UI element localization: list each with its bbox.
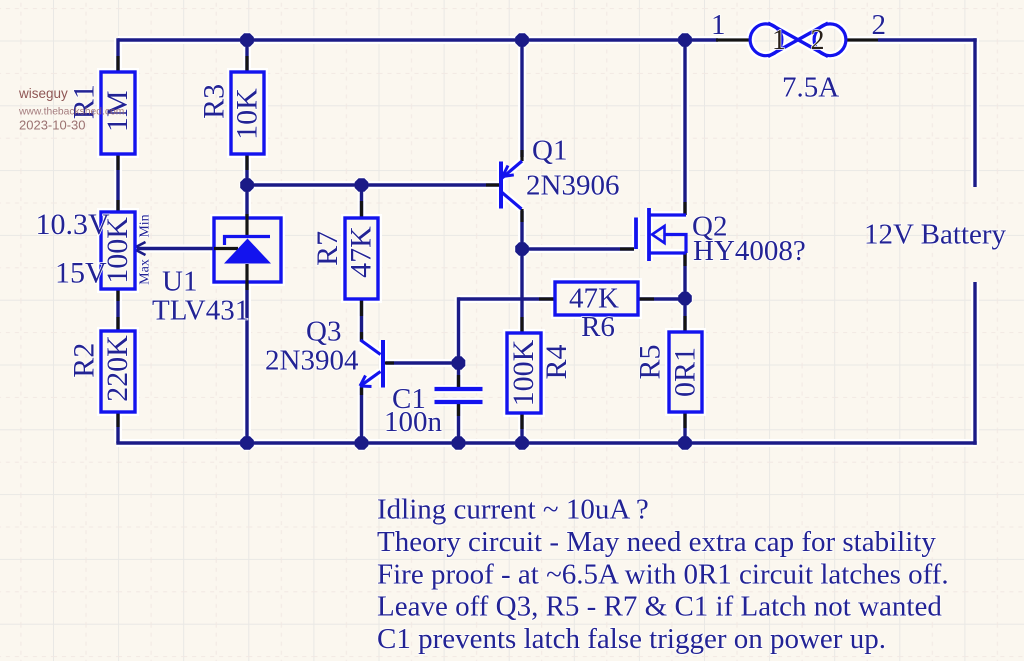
wire bottom rail bbox=[116, 441, 976, 444]
potentiometer 100K Min/Max bbox=[101, 212, 153, 289]
wire Q1 emitter top bbox=[520, 40, 523, 157]
pin R5-2 bbox=[683, 412, 686, 428]
junction at 247,185 bbox=[241, 179, 254, 192]
wire left rail bbox=[116, 38, 119, 443]
resistor R1 1M bbox=[68, 72, 136, 154]
svg-text:Max: Max bbox=[138, 259, 153, 285]
junction at 685,298.5 bbox=[679, 292, 692, 305]
pin R4-2 bbox=[520, 413, 523, 429]
svg-text:R5: R5 bbox=[634, 344, 667, 379]
svg-text:2: 2 bbox=[811, 25, 825, 56]
op-amp U1 TLV431 shunt reference bbox=[152, 214, 281, 327]
resistor R7 47K bbox=[311, 218, 378, 299]
svg-text:220K: 220K bbox=[101, 335, 134, 402]
wire Q3 base bbox=[386, 361, 459, 364]
svg-text:47K: 47K bbox=[345, 226, 378, 278]
svg-text:R6: R6 bbox=[581, 311, 615, 343]
pin Q1 emitter bbox=[520, 150, 523, 161]
wire Q3 emitter column bbox=[360, 386, 363, 443]
svg-text:Q1: Q1 bbox=[532, 135, 567, 167]
svg-text:2: 2 bbox=[872, 9, 887, 41]
pin Q2 source bbox=[683, 253, 686, 266]
pin Q2 gate bbox=[620, 247, 634, 250]
transistor Q2 HY4008 MOSFET bbox=[636, 208, 806, 267]
transistor Q1 2N3906 PNP bbox=[501, 135, 619, 210]
pin pot-2 bbox=[116, 289, 119, 301]
pin R5-1 bbox=[683, 316, 686, 332]
junction at 247,443 bbox=[241, 437, 254, 450]
pin Q3 collector bbox=[360, 332, 363, 341]
svg-text:100K: 100K bbox=[507, 339, 540, 406]
resistor R3 10K bbox=[198, 72, 265, 154]
svg-text:C1 prevents latch false trigge: C1 prevents latch false trigger on power… bbox=[377, 623, 886, 655]
transistor Q3 2N3904 NPN bbox=[265, 316, 383, 388]
junction at 685,40 bbox=[679, 34, 692, 47]
svg-text:R2: R2 bbox=[68, 343, 101, 378]
svg-text:Leave off Q3, R5 - R7 & C1 if: Leave off Q3, R5 - R7 & C1 if Latch not … bbox=[377, 591, 942, 623]
pin Q1 base bbox=[486, 183, 500, 186]
junction at 458.5,363 bbox=[452, 357, 465, 370]
pin fuse-1 bbox=[716, 38, 749, 41]
svg-text:Theory circuit - May need extr: Theory circuit - May need extra cap for … bbox=[377, 526, 936, 558]
svg-text:1: 1 bbox=[711, 9, 726, 41]
resistor R2 220K bbox=[68, 331, 136, 412]
junction at 522,40 bbox=[516, 34, 529, 47]
svg-text:47K: 47K bbox=[569, 283, 619, 315]
svg-text:2N3906: 2N3906 bbox=[526, 170, 619, 202]
pin C1-1 bbox=[457, 375, 460, 389]
svg-text:1: 1 bbox=[772, 25, 786, 56]
svg-text:Min: Min bbox=[138, 214, 153, 237]
pin C1-2 bbox=[457, 402, 460, 416]
wire Q1 collector / R4 column bbox=[520, 211, 523, 443]
wire top rail right bbox=[878, 38, 977, 41]
svg-text:U1: U1 bbox=[162, 266, 197, 298]
svg-text:12V Battery: 12V Battery bbox=[864, 219, 1007, 251]
svg-text:TLV431: TLV431 bbox=[152, 295, 249, 327]
annotation note block bbox=[377, 494, 949, 656]
wire C1 bottom column bbox=[457, 402, 460, 443]
pin Q3 emitter bbox=[360, 388, 363, 396]
junction at 522,249 bbox=[516, 243, 529, 256]
resistor R6 47K horizontal bbox=[555, 282, 638, 343]
wire Q2 drain column bbox=[683, 40, 686, 215]
svg-text:HY4008?: HY4008? bbox=[693, 235, 806, 267]
white canvas halo underlay bbox=[101, 23, 977, 451]
svg-text:15V: 15V bbox=[55, 257, 107, 290]
svg-text:100n: 100n bbox=[384, 406, 443, 438]
pin R6-1 bbox=[539, 297, 555, 300]
svg-text:2023-10-30: 2023-10-30 bbox=[19, 118, 86, 133]
wire right rail top (battery lead) bbox=[973, 38, 976, 187]
pin pot-1 bbox=[116, 200, 119, 212]
svg-text:R3: R3 bbox=[198, 84, 231, 119]
svg-text:2N3904: 2N3904 bbox=[265, 345, 359, 377]
svg-text:10.3V: 10.3V bbox=[36, 208, 111, 241]
svg-text:Q3: Q3 bbox=[306, 316, 341, 348]
pin R1-1 bbox=[116, 56, 119, 72]
pin R3-1 bbox=[245, 56, 248, 72]
pin fuse-2 bbox=[846, 38, 878, 41]
junction at 685,443 bbox=[679, 437, 692, 450]
svg-text:Fire proof - at ~6.5A with 0R1: Fire proof - at ~6.5A with 0R1 circuit l… bbox=[377, 559, 949, 591]
pin R3-2 bbox=[245, 154, 248, 170]
junction at 361.5,185 bbox=[355, 179, 368, 192]
pin R6-2 bbox=[638, 297, 654, 300]
wire node mid y185 bbox=[247, 183, 500, 186]
svg-text:www.thebackshed.com: www.thebackshed.com bbox=[18, 107, 124, 118]
svg-text:R4: R4 bbox=[540, 344, 573, 379]
pin Q1 collector bbox=[520, 209, 523, 222]
pin R7-1 bbox=[360, 201, 363, 218]
pot wiper arrowhead bbox=[133, 242, 146, 255]
pin R7-2 bbox=[360, 299, 363, 316]
wire right rail bottom (battery lead) bbox=[973, 282, 976, 445]
svg-text:R7: R7 bbox=[311, 231, 344, 266]
wire R3/U1 column bbox=[245, 40, 248, 443]
junction at 361.5,443 bbox=[355, 437, 368, 450]
wire pot wiper to U1 ref bbox=[137, 247, 214, 250]
junction at 458.5,443 bbox=[452, 437, 465, 450]
pin R1-2 bbox=[116, 154, 119, 170]
svg-text:7.5A: 7.5A bbox=[782, 72, 839, 104]
junction at 247,40 bbox=[241, 34, 254, 47]
capacitor C1 100n bbox=[384, 383, 483, 438]
pin R2-2 bbox=[116, 412, 119, 427]
wire Q2 source / R5 column bbox=[683, 253, 686, 443]
wire R6 right to Q2 source node bbox=[638, 297, 685, 300]
wire R7 column bbox=[360, 185, 363, 341]
junction at 522,443 bbox=[516, 437, 529, 450]
pin Q3 base bbox=[385, 361, 394, 364]
svg-text:10K: 10K bbox=[231, 88, 264, 140]
pin R4-1 bbox=[520, 317, 523, 333]
wire Q1 collector to Q2 gate bbox=[522, 247, 634, 250]
pin R2-1 bbox=[116, 317, 119, 331]
svg-text:wiseguy: wiseguy bbox=[18, 86, 68, 101]
wire node y299 to R6 bbox=[459, 297, 556, 300]
pin Q2 drain bbox=[683, 202, 686, 215]
resistor R4 100K bbox=[507, 333, 573, 413]
wire C1 top column bbox=[457, 297, 460, 389]
resistor R5 0R1 bbox=[634, 332, 702, 412]
fuse F1 7.5A bbox=[750, 23, 846, 57]
wire top rail left bbox=[118, 38, 718, 41]
svg-text:0R1: 0R1 bbox=[669, 347, 702, 397]
svg-text:Idling current ~ 10uA ?: Idling current ~ 10uA ? bbox=[377, 494, 649, 526]
